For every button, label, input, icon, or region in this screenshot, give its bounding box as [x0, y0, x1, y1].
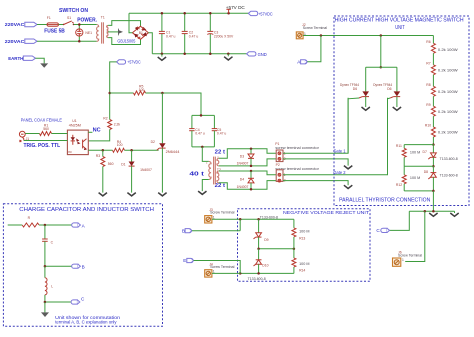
net flag A charge — [72, 223, 81, 227]
bridge DC- wire to bottom rail — [148, 33, 152, 54]
wire input to R — [8, 224, 23, 226]
net flag B charge — [72, 264, 81, 268]
wire sec1 top to P1 — [219, 149, 276, 159]
capacitor C5 — [212, 115, 217, 146]
ground arrow mid — [429, 213, 437, 216]
dashed box NEGATIVE VOLTAGE REJECT UNIT — [238, 209, 371, 281]
svg-text:1N4007: 1N4007 — [237, 162, 249, 166]
svg-text:1N4007: 1N4007 — [237, 185, 249, 189]
svg-text:D6: D6 — [387, 87, 391, 91]
node D2 anode junction — [161, 92, 164, 95]
svg-text:EARTH: EARTH — [8, 56, 24, 61]
inductor L — [45, 266, 47, 302]
wire R2 to U1 collector — [88, 130, 109, 141]
svg-text:E: E — [183, 258, 186, 263]
wire to J6 — [405, 211, 425, 261]
svg-text:2200u X 50V: 2200u X 50V — [214, 34, 234, 38]
svg-text:nc: nc — [68, 150, 72, 154]
wire U1 emitter node — [88, 149, 112, 151]
wire R to A flag — [39, 224, 72, 226]
coax jack J1 — [19, 131, 25, 142]
wire to C flag — [390, 211, 410, 230]
wire A flag up to rail — [307, 36, 321, 62]
svg-text:NEGATIVE VOLTAGE REJECT UNIT: NEGATIVE VOLTAGE REJECT UNIT — [283, 210, 369, 215]
svg-text:100 M: 100 M — [410, 176, 421, 180]
NC stub and label — [88, 131, 92, 133]
svg-text:terminal A, B, C explanation o: terminal A, B, C explanation only — [55, 320, 117, 325]
wire T2 primary bottom to ground — [202, 180, 209, 192]
svg-text:L: L — [51, 285, 53, 289]
svg-text:D2: D2 — [151, 140, 155, 144]
junction dots top rail — [161, 12, 164, 15]
T1 secondary bottom wire to bridge — [108, 38, 140, 45]
wire E flag to net — [194, 261, 241, 274]
wire mid row — [404, 165, 433, 167]
junction dots NE1 — [78, 23, 81, 26]
svg-text:T1: T1 — [101, 16, 105, 20]
svg-text:R9: R9 — [426, 103, 430, 107]
svg-text:screw terminal connector: screw terminal connector — [275, 146, 320, 150]
svg-text:R6: R6 — [426, 40, 430, 44]
svg-text:100: 100 — [139, 88, 145, 92]
svg-text:D3: D3 — [240, 155, 244, 159]
svg-text:220VAC: 220VAC — [5, 22, 25, 27]
earth ground arrow — [40, 63, 48, 67]
svg-text:2.2k: 2.2k — [114, 123, 121, 127]
svg-text:Screw Terminal: Screw Terminal — [210, 265, 235, 269]
dashed box HIGH CURRENT UNIT — [334, 16, 469, 206]
svg-text:SWITCH ON: SWITCH ON — [59, 8, 88, 14]
capacitor C3 electrolytic — [207, 13, 213, 54]
snubber loop bottom — [192, 146, 215, 148]
svg-text:+57VDC: +57VDC — [258, 11, 273, 16]
wire rail2 left — [110, 92, 134, 94]
svg-text:560: 560 — [43, 127, 49, 131]
wire sec2 top to P2 — [219, 171, 276, 175]
ground arrow under D6 right — [393, 107, 401, 110]
net flag +57VDC middle — [117, 60, 126, 64]
svg-text:100 M: 100 M — [299, 262, 310, 266]
svg-text:0.2k 100W: 0.2k 100W — [438, 90, 459, 94]
ground arrow under T2 — [198, 191, 206, 194]
wire +57VDC down to rail2 — [110, 62, 117, 120]
bridge rectifier B1 GBJ15005 — [132, 26, 148, 39]
svg-text:B: B — [82, 265, 85, 270]
svg-text:Gate 1: Gate 1 — [333, 148, 346, 153]
ground arrow P2 — [344, 185, 352, 188]
svg-text:FUSE 5B: FUSE 5B — [44, 28, 65, 34]
wire Gate 1 — [283, 98, 348, 154]
snubber loop C4 C5 — [192, 114, 215, 116]
svg-text:B: B — [182, 228, 185, 233]
junction dots bottom rail — [161, 53, 164, 56]
svg-text:1N4007: 1N4007 — [140, 168, 152, 172]
capacitor C4 — [189, 115, 194, 146]
svg-text:GBJ15005: GBJ15005 — [117, 39, 135, 44]
svg-text:D10: D10 — [262, 263, 268, 267]
wire fuse to switch — [59, 24, 64, 26]
svg-text:R8: R8 — [426, 83, 430, 87]
svg-text:T133-600-8: T133-600-8 — [440, 173, 458, 177]
svg-text:R13: R13 — [299, 237, 305, 241]
ground arrow under D1 — [127, 193, 135, 196]
bottom GND rail — [152, 53, 247, 55]
net flag GND — [247, 52, 256, 56]
wire L to fuse — [37, 24, 47, 26]
wire J3 to R13 — [212, 218, 294, 220]
bridge DC+ wire to top rail — [129, 13, 132, 32]
node rail2 junction — [108, 92, 111, 95]
svg-text:R14: R14 — [299, 269, 305, 273]
bottom wire negative unit — [240, 272, 294, 274]
ground arrow right — [450, 211, 458, 216]
svg-text:POWER.: POWER. — [77, 17, 97, 23]
ground arrow below C1 — [158, 54, 166, 61]
gate wire stubs — [348, 98, 359, 153]
ground arrow under D6 left — [362, 107, 370, 110]
svg-text:+57V DC: +57V DC — [226, 5, 245, 10]
svg-text:0.2k 100W: 0.2k 100W — [438, 131, 459, 135]
svg-text:UNIT: UNIT — [395, 25, 405, 31]
wire J2 to rail — [303, 35, 433, 37]
wire J1 to R1 — [25, 133, 39, 135]
svg-text:S1: S1 — [67, 16, 71, 20]
svg-text:T133-600-8: T133-600-8 — [260, 215, 278, 219]
top DC rail +57V — [129, 12, 249, 14]
svg-text:100 M: 100 M — [299, 229, 310, 233]
dashed box CHARGE CAPACITOR AND INDUCTOR SWITCH — [3, 204, 162, 327]
wire loop to T2 primary — [202, 147, 209, 162]
wire P2 pin2 to ground — [283, 181, 348, 186]
svg-text:R11: R11 — [396, 144, 402, 148]
svg-text:HIGH CURRENT HIGH VOLTAGE MAGN: HIGH CURRENT HIGH VOLTAGE MAGNETIC SWITC… — [335, 18, 464, 24]
svg-text:22 t: 22 t — [215, 183, 226, 189]
svg-text:R3: R3 — [96, 154, 100, 158]
svg-text:0.2k 100W: 0.2k 100W — [438, 110, 459, 114]
capacitor C1 — [159, 13, 165, 54]
+57V DC supply symbol — [226, 9, 230, 13]
svg-text:GND: GND — [258, 52, 268, 57]
wire Gate 2 — [283, 98, 388, 175]
svg-text:40 t: 40 t — [189, 171, 204, 177]
svg-text:T133-600-8: T133-600-8 — [440, 157, 458, 161]
svg-text:R10: R10 — [425, 124, 431, 128]
wire J1 shield to U1 pin2 — [24, 140, 68, 142]
svg-text:Gate 2: Gate 2 — [333, 170, 346, 175]
ground arrow near GND flag — [224, 54, 232, 60]
wire B net vertical — [239, 219, 241, 230]
wire sec2 bottom to P2 — [219, 181, 276, 190]
bottom ground rail — [409, 210, 454, 212]
ground arrow P1 — [344, 166, 352, 169]
svg-text:4N25M: 4N25M — [69, 124, 81, 128]
svg-text:Screw Terminal: Screw Terminal — [303, 26, 328, 30]
svg-text:D4: D4 — [240, 178, 244, 182]
svg-text:D7: D7 — [423, 150, 427, 154]
svg-text:D9: D9 — [264, 238, 268, 242]
svg-text:Screw Terminal: Screw Terminal — [210, 211, 235, 215]
wire L to ground — [44, 302, 46, 312]
neon lamp NE1 — [78, 25, 80, 30]
svg-text:0.2k 100W: 0.2k 100W — [438, 48, 459, 52]
mid wire D9 D10 — [259, 248, 294, 250]
wire sec1 bottom to P1 — [219, 159, 276, 166]
wire P1 pin2 to ground — [283, 159, 348, 166]
svg-text:0.47 u: 0.47 u — [217, 131, 227, 135]
svg-text:R2: R2 — [103, 116, 107, 120]
svg-text:0.2k 100W: 0.2k 100W — [438, 68, 459, 72]
svg-text:CHARGE CAPACITOR AND INDUCTOR: CHARGE CAPACITOR AND INDUCTOR SWITCH — [19, 207, 154, 213]
capacitor C charge — [42, 225, 48, 266]
svg-text:0.47 u: 0.47 u — [189, 34, 199, 38]
net flag +57VDC top — [248, 11, 257, 15]
svg-text:NC: NC — [93, 128, 101, 134]
svg-text:D6: D6 — [353, 87, 357, 91]
svg-text:R12: R12 — [396, 183, 402, 187]
ground arrow charge box — [41, 312, 49, 317]
svg-text:0.47 u: 0.47 u — [166, 34, 176, 38]
ground arrow under R3 — [99, 193, 107, 196]
svg-text:22 t: 22 t — [215, 149, 226, 155]
svg-text:B1: B1 — [139, 31, 143, 35]
net flag C charge — [71, 300, 80, 304]
wire rail down to thyristor pair — [380, 36, 382, 68]
svg-text:PARALLEL THYRISTOR CONNECTION: PARALLEL THYRISTOR CONNECTION — [339, 198, 430, 204]
wire J4 to net — [212, 272, 240, 274]
svg-text:T133-600-8: T133-600-8 — [248, 277, 266, 281]
svg-text:100 M: 100 M — [410, 151, 421, 155]
bottom row wire — [404, 190, 433, 192]
thyristor pair top wire — [366, 66, 397, 68]
T1 secondary top wire to bridge — [108, 21, 140, 27]
svg-text:1: 1 — [213, 215, 215, 219]
capacitor C2 — [182, 13, 188, 54]
EARTH wire and ground — [36, 58, 45, 63]
wire R1 to U1 pin1 — [52, 133, 68, 135]
ground arrow under D2 — [158, 193, 166, 196]
rail exits box — [432, 191, 434, 211]
svg-text:F1: F1 — [47, 16, 51, 20]
svg-text:0.47 u: 0.47 u — [195, 131, 205, 135]
svg-text:NE1: NE1 — [85, 31, 92, 35]
wire to R11 — [404, 144, 433, 146]
wire switch to T1 — [74, 24, 97, 26]
svg-text:560: 560 — [108, 162, 114, 166]
wire B flag to net — [192, 230, 240, 232]
T1 center tap to chassis arrow — [108, 31, 118, 33]
wire to B flag — [45, 265, 72, 267]
wire rail2 right — [146, 93, 202, 115]
wire R4 to D2 gate — [125, 149, 159, 151]
svg-text:1: 1 — [402, 258, 404, 262]
svg-text:D1: D1 — [121, 163, 125, 167]
wire to C flag — [45, 301, 71, 303]
svg-text:220VAC: 220VAC — [5, 39, 25, 44]
svg-text:100: 100 — [117, 143, 123, 147]
svg-text:D8: D8 — [424, 170, 428, 174]
svg-text:TRIG. POS. TTL: TRIG. POS. TTL — [24, 143, 61, 149]
svg-text:2N6444: 2N6444 — [166, 150, 180, 154]
svg-text:R7: R7 — [426, 61, 430, 65]
svg-text:PANEL COAX FEMALE: PANEL COAX FEMALE — [21, 117, 62, 122]
svg-text:+57VDC: +57VDC — [127, 60, 141, 65]
